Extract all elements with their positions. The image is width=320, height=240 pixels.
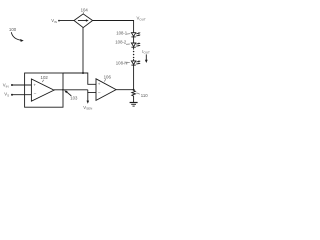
input terminal VIN (op-amp non-inverting) [3,83,13,89]
input terminal VS (op-amp inverting) [4,92,13,98]
LED D108-1 [131,32,140,37]
sense resistor R110 (zigzag) [132,90,136,102]
op-amp1 output wire crossing box edge to corner [54,89,88,91]
svg-text:110: 110 [141,93,148,98]
svg-text:108-N: 108-N [116,60,128,65]
op-amp U1 (inside box) [31,79,54,101]
svg-text:106: 106 [104,75,112,80]
svg-text:+: + [98,82,101,87]
ground symbol [130,103,138,107]
output current label Iout with arrow [142,49,150,63]
junction node at sense resistor top [133,89,135,91]
figure reference numeral 100 with curved leader arrow [9,27,24,42]
controlled current source U104 (diamond) [74,14,93,28]
wire diamond bottom down to control node [82,28,84,74]
svg-text:VIN: VIN [3,83,9,89]
input terminal VIN (to current source) [51,18,60,24]
ellipsis (more LEDs) [133,51,135,59]
label 108-N with leader [116,60,130,65]
svg-text:VIN: VIN [51,18,57,24]
svg-text:VS: VS [4,92,9,98]
label 102 with leader [41,75,49,82]
svg-text:IOUT: IOUT [142,49,150,55]
wire LED2 down [133,47,135,49]
signal arrow VSEN [83,92,92,110]
svg-text:108-1: 108-1 [116,30,128,35]
amplifier block box 102 [25,73,63,107]
label 108-1 with leader [116,30,130,35]
wire LED1 to LED2 [133,37,135,43]
label 110 with leader [137,93,149,98]
wire to + input [13,84,32,86]
svg-text:−: − [98,91,101,96]
svg-text:103: 103 [70,95,78,100]
wire diamond output to top-right corner [93,21,134,33]
svg-text:104: 104 [81,8,89,13]
svg-text:VSEN: VSEN [83,105,92,111]
wire to - input [13,94,32,96]
svg-text:−: − [34,92,37,97]
svg-text:VOUT: VOUT [137,16,146,22]
wire VIN to diamond [60,20,74,22]
label 103 with leader arrow to output wire [64,90,78,100]
comparator U106 [96,79,116,101]
svg-text:102: 102 [41,75,49,80]
LED D108-N [131,59,140,65]
wire LED string bottom to sense node [133,65,135,91]
LED D108-2 [131,43,140,48]
svg-text:+: + [33,82,36,87]
svg-text:108-2: 108-2 [115,40,127,45]
wire box top edge to comparator non-inverting input [63,73,96,84]
junction node at diamond control [82,72,84,74]
label 108-2 with leader [115,40,130,45]
wire op-amp1 output to comparator inverting input [88,90,96,93]
svg-text:100: 100 [9,27,17,32]
label 106 with leader [104,75,112,82]
label 104 [81,8,89,14]
comparator output wire to sense node [116,89,134,91]
